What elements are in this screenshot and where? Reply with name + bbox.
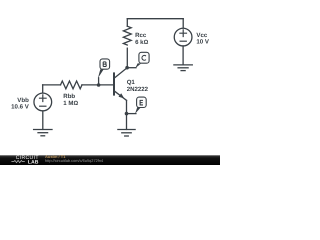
svg-text:1 MΩ: 1 MΩ <box>63 100 78 107</box>
svg-text:http://circuitlab.com/c/6u5q27: http://circuitlab.com/c/6u5q272fn4 <box>45 158 104 163</box>
svg-text:6 kΩ: 6 kΩ <box>135 39 148 46</box>
svg-text:LAB: LAB <box>28 159 39 165</box>
svg-text:10.6 V: 10.6 V <box>11 104 30 111</box>
svg-text:2N2222: 2N2222 <box>127 86 149 93</box>
svg-text:10 V: 10 V <box>196 38 209 45</box>
